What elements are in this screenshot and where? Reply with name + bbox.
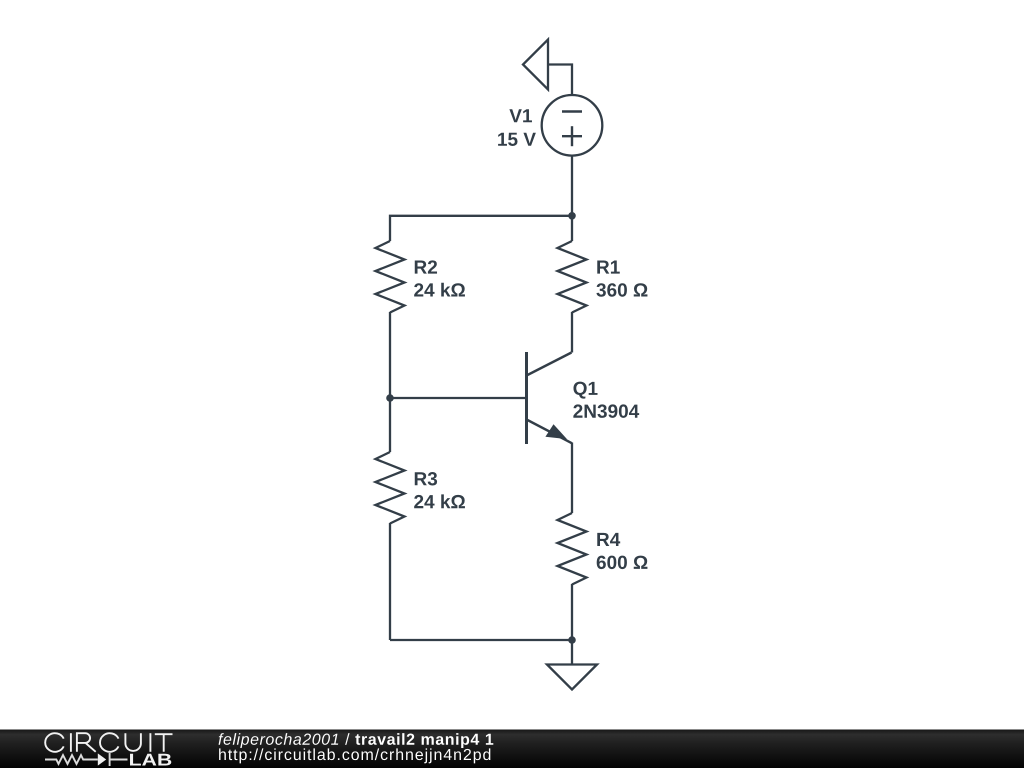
label Q1 value xyxy=(573,382,639,418)
logo CIRCUIT wordmark xyxy=(45,733,172,752)
wire Q1 emitter to R4 xyxy=(571,443,573,514)
label R3 value xyxy=(414,472,465,508)
footer bar xyxy=(0,730,1024,768)
wire base node B to Q1 xyxy=(390,397,525,399)
wire node C to ground xyxy=(571,640,573,665)
resistor R2 xyxy=(376,241,405,313)
logo LAB wordmark xyxy=(130,754,171,766)
wire bottom net xyxy=(390,639,572,641)
wire R1 to Q1 collector xyxy=(571,312,573,353)
label R4 value xyxy=(597,533,648,569)
logo resistor-diode line xyxy=(45,753,128,766)
ground xyxy=(547,665,597,690)
voltage source V1 xyxy=(542,95,603,156)
footer url text xyxy=(219,748,490,763)
node B junction xyxy=(386,394,394,402)
label R1 value xyxy=(596,261,647,297)
wire V1 to node A xyxy=(571,156,573,216)
resistor R4 xyxy=(558,513,587,585)
wire R2 to R3 through node B xyxy=(389,312,391,452)
wire top net node A to R2 xyxy=(390,216,572,241)
node A junction xyxy=(568,212,576,220)
wire node A to R1 xyxy=(571,216,573,241)
resistor R1 xyxy=(558,241,587,313)
flag node symbol xyxy=(523,40,548,90)
wire flag to V1 xyxy=(548,65,572,96)
label R2 value xyxy=(414,260,465,296)
resistor R3 xyxy=(376,452,405,524)
transistor Q1 xyxy=(527,352,572,444)
wire R4 to node C xyxy=(571,584,573,640)
node C junction xyxy=(568,636,576,644)
wire R3 to bottom net xyxy=(389,523,391,640)
label V1 value xyxy=(498,109,536,146)
footer title text xyxy=(219,733,494,748)
